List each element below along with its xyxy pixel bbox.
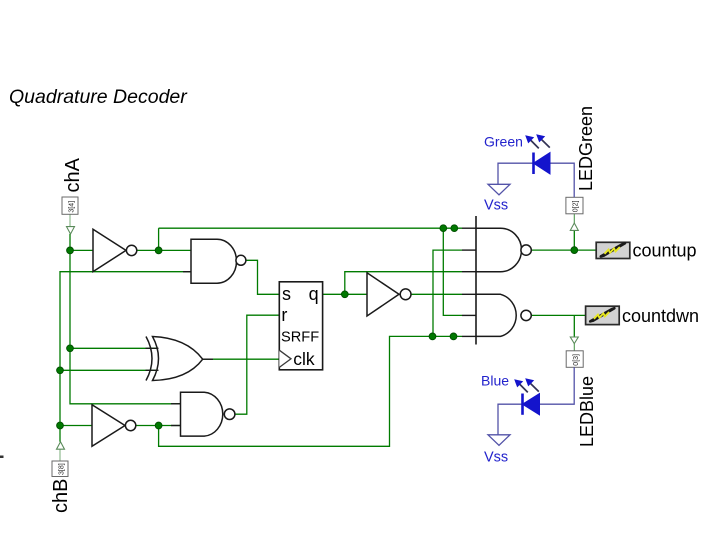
wire notB stub black [462,335,477,337]
wire q up branch [345,272,462,295]
wire q stub black [462,293,477,295]
wire vertical notA to NAND G4 [443,228,462,315]
wire notA stub black [462,227,477,229]
svg-text:SRFF: SRFF [281,330,319,346]
junction notA bus 1 [440,225,447,232]
SRFF U3 [279,282,322,370]
svg-text:3[8]: 3[8] [58,463,65,475]
wire inverter U2 output to NAND G2 [136,425,181,427]
pin box countup 0[2] [566,197,583,214]
svg-text:LEDGreen: LEDGreen [576,106,596,191]
output icon countup [596,242,630,258]
wire countdwn net [531,314,585,316]
svg-text:chA: chA [62,157,84,192]
wire node C to XOR top input [70,347,158,349]
wire LEDGreen cathode to Vss [498,163,534,184]
wire NAND G2 output to SRFF r [235,315,279,414]
wire XOR output to SRFF clk [203,358,280,360]
wire notA top bus [159,227,462,229]
LED D2 arrows [514,378,539,392]
wire chA pin to node A [69,234,71,251]
junction notB bus 1 [429,333,436,340]
wire countup pin stub [573,214,575,223]
wire chB to NAND G1 stub [183,271,191,273]
svg-text:Vss: Vss [484,450,508,466]
wire XOR output stub black [203,358,213,360]
input bus vertical line [475,216,477,345]
pin box chB 3[8] [52,461,68,477]
wire notB long route [159,336,462,446]
wire countdwn pin stub [573,344,575,351]
junction node q [341,291,348,298]
junction node B [155,247,162,254]
wire chB pin stub [59,449,61,461]
wire NAND G1 output to SRFF s [246,260,280,294]
output icon countdwn [586,306,620,324]
junction notB bus 2 [450,333,457,340]
pin marker chB [57,442,65,449]
svg-text:LEDBlue: LEDBlue [577,376,597,447]
junction node C [67,345,74,352]
LED D1 arrows [525,134,550,148]
junction node D2 [57,422,64,429]
wire q branch stub black [462,271,477,273]
svg-text:r: r [281,305,287,325]
wire U2 out stub black [171,425,181,427]
ground Vss bottom [488,435,510,446]
NAND G2 [181,392,235,436]
wire stub black G4 mid [462,314,477,316]
wire chA pin stub [69,214,71,226]
svg-text:Quadrature Decoder: Quadrature Decoder [9,86,188,108]
pin marker countdwn [570,337,578,344]
wire countdwn down to pin [573,315,575,337]
wire vertical notB to NAND G3 [433,250,462,336]
junction countup [571,247,578,254]
wire inverter U1 output to node B [137,249,191,251]
wire LEDBlue anode blue [540,367,575,404]
pin marker chA [67,227,75,234]
pin box countdwn 0[3] [566,351,583,368]
junction node D1 [57,367,64,374]
svg-text:countup: countup [633,241,697,261]
LED D2 blue [523,394,540,415]
wire node A down to NAND G2 [70,250,181,403]
svg-text:0[3]: 0[3] [573,354,580,366]
wire countup net [531,249,596,251]
svg-text:Green: Green [484,133,523,149]
wire stub black G3 mid [462,249,477,251]
NAND G3 [476,228,531,272]
junction node A [67,247,74,254]
svg-text:s: s [282,284,291,304]
svg-text:countdwn: countdwn [622,306,699,326]
wire inverter U4 output [411,293,462,295]
wire A to NAND G2 stub [171,403,181,405]
wire node A to inverter U1 input [70,249,93,251]
NAND G1 [191,239,246,283]
wire node D to inverter U2 input [60,425,92,427]
svg-text:3[4]: 3[4] [68,201,75,213]
svg-text:Vss: Vss [484,198,508,214]
svg-text:chB: chB [50,479,72,513]
wire node D to XOR bottom input [60,369,158,371]
junction node E [155,422,162,429]
svg-text:q: q [309,284,319,304]
svg-text:Blue: Blue [481,373,509,389]
inverter U4 [367,273,411,316]
wire node B riser [158,228,160,250]
junction notA bus 2 [451,225,458,232]
wire chB riser [60,272,191,442]
inverter U2 [92,405,136,447]
pin marker countup [570,223,578,230]
svg-text:clk: clk [293,349,315,369]
XOR G5 [146,337,203,381]
pin box chA 3[4] [62,197,78,214]
NAND G4 [476,294,531,336]
inverter U1 [93,229,137,271]
svg-text:0[2]: 0[2] [573,200,580,212]
XOR input stubs [146,348,159,370]
wire SRFF q output [323,293,367,295]
wire LEDGreen anode blue [550,163,574,197]
wire countup up to pin [573,230,575,250]
wire LEDBlue cathode to Vss [498,404,523,435]
page margin tick [0,456,4,459]
ground Vss top [488,184,510,195]
LED D1 green [534,153,551,175]
